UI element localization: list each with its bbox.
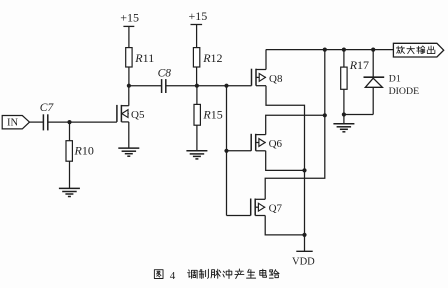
resistor R12 — [193, 48, 199, 67]
wire Q7 drain to drain bus — [265, 50, 325, 200]
capacitor C7 — [42, 114, 44, 130]
svg-text:Q6: Q6 — [269, 138, 283, 150]
wire Q8 source to VDD bus — [266, 86, 305, 252]
resistor R17 — [343, 50, 345, 68]
svg-text:C7: C7 — [40, 102, 55, 114]
svg-text:Q5: Q5 — [131, 109, 145, 121]
svg-text:VDD: VDD — [292, 257, 315, 268]
wire Q6 source to VDD bus — [266, 151, 305, 171]
svg-text:Q7: Q7 — [269, 203, 283, 215]
svg-text:R12: R12 — [202, 51, 222, 65]
port IN — [2, 116, 29, 129]
port 放大输出 — [393, 43, 443, 57]
svg-text:Q8: Q8 — [269, 73, 283, 85]
node R17/D1 bottom — [342, 112, 346, 116]
wire Q5 drain up — [128, 86, 130, 106]
wire Q6 drain to drain bus — [266, 115, 325, 134]
ground (R10) — [59, 187, 80, 189]
node rail / D1 — [371, 48, 375, 52]
wire Q7 source to VDD bus — [265, 216, 304, 235]
svg-text:R17: R17 — [349, 58, 369, 72]
node Q7 source / VDD bus — [302, 233, 306, 237]
wire Q8 drain to output rail — [265, 50, 267, 70]
transistor Q7 — [251, 199, 266, 216]
svg-text:+15: +15 — [120, 11, 139, 25]
ground (R17) — [333, 123, 354, 125]
svg-text:DIODE: DIODE — [389, 86, 419, 97]
resistor R15 — [196, 86, 198, 105]
ground (R15) — [186, 150, 207, 152]
node rail / R17 — [342, 48, 346, 52]
svg-text:D1: D1 — [389, 74, 401, 85]
node Q6 source / VDD bus — [302, 168, 306, 172]
ground (Q5) — [118, 147, 139, 149]
transistor Q6 — [251, 134, 266, 151]
wire bottom R17-D1 — [344, 114, 373, 116]
node input / R10 junction — [67, 120, 71, 124]
svg-text:R11: R11 — [134, 51, 154, 65]
wire node to gate bus — [197, 85, 227, 87]
wire IN to C7 — [30, 121, 44, 123]
svg-text:+15: +15 — [189, 9, 208, 23]
wire output rail — [266, 49, 394, 51]
transistor Q5 — [117, 105, 129, 122]
transistor Q8 — [252, 69, 267, 86]
node rail / drain bus — [323, 48, 327, 52]
resistor R10 — [69, 122, 71, 141]
svg-text:IN: IN — [7, 118, 18, 129]
power VDD — [296, 250, 312, 252]
node R12/R15 — [195, 84, 199, 88]
wire to Q7 gate — [227, 215, 251, 217]
wire to ground — [343, 115, 345, 124]
resistor R11 — [126, 48, 132, 67]
svg-text:4: 4 — [170, 270, 176, 282]
wire C7 to Q5 gate — [48, 121, 117, 123]
caption 图4 调制脉冲产生电路 — [154, 270, 163, 279]
wire C8 to R12 node — [166, 85, 197, 87]
node gate bus top — [224, 84, 228, 88]
svg-text:C8: C8 — [158, 68, 172, 80]
node R11/Q5/C8 — [127, 84, 131, 88]
diode D1 — [372, 50, 374, 78]
capacitor C8 — [161, 79, 163, 93]
wire to Q6 gate — [227, 150, 252, 152]
node Q6 drain / bus — [323, 113, 327, 117]
wire to C8 — [129, 85, 162, 87]
svg-text:R15: R15 — [202, 107, 222, 121]
wire gate bus vertical — [226, 86, 228, 216]
wire gate bus to Q8 — [227, 85, 252, 87]
node Q6 gate — [224, 149, 228, 153]
svg-text:R10: R10 — [74, 143, 94, 157]
wire Q5 source down — [128, 122, 130, 148]
